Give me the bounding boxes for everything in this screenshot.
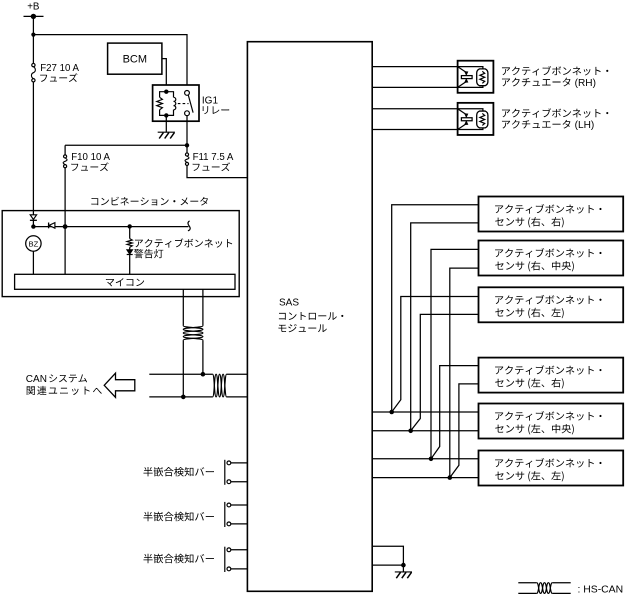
wire SAS sensor bus C (to sensor6 top) xyxy=(372,458,478,460)
node CAN lower junction xyxy=(181,395,186,400)
actuator LH shorting bar xyxy=(461,118,472,121)
wire SAS ground pin 1 xyxy=(372,546,403,565)
label sensor 3 line1 xyxy=(495,295,601,304)
label microcomputer (JP) xyxy=(106,278,144,286)
label CAN system line2 xyxy=(27,386,102,395)
label F11 fuse (JP) xyxy=(193,162,230,171)
active bonnet sensor box 3 (右、左) xyxy=(479,287,624,322)
relay coil inductor xyxy=(174,97,176,110)
svg-text:BZ: BZ xyxy=(28,239,38,248)
connector hook end of meter bus xyxy=(188,221,190,231)
wire F11 to SAS module xyxy=(187,166,247,178)
wire SAS sensor bus A (to sensor5 top) xyxy=(372,411,478,413)
node junction relay output xyxy=(185,143,189,147)
svg-text:(LH): (LH) xyxy=(575,120,595,131)
actuator RH squib feed bottom xyxy=(458,86,483,88)
label sensor 5 line1 xyxy=(495,411,601,420)
wire relay switch to junction xyxy=(186,115,188,145)
wire sensor3 bottom feed xyxy=(411,314,479,430)
wire SAS to actuator RH pin1 xyxy=(372,66,457,68)
actuator LH squib resistor xyxy=(480,113,485,125)
legend twisted pair line lower xyxy=(518,592,536,594)
wire CAN-H to bus lower xyxy=(182,340,184,397)
wire F10 drop xyxy=(64,145,66,155)
arrow to CAN system units xyxy=(104,373,135,397)
label sensor 1 line2 xyxy=(495,217,563,228)
fuse F27 10A xyxy=(32,63,35,66)
svg-text:SAS: SAS xyxy=(279,298,299,309)
actuator RH shorting bar xyxy=(461,76,472,79)
label module (JP) xyxy=(278,324,326,332)
detection terminal 1 xyxy=(227,461,231,465)
legend twisted pair line upper xyxy=(518,582,536,584)
wire SAS ground pin 2 xyxy=(372,564,403,566)
svg-text:(RH): (RH) xyxy=(575,78,596,89)
svg-text:: HS-CAN: : HS-CAN xyxy=(578,585,624,596)
relay coil resistor zigzag xyxy=(157,97,163,110)
microcomputer box xyxy=(15,274,235,289)
label sensor 6 line1 xyxy=(495,458,601,467)
actuator RH box xyxy=(458,61,494,93)
actuator LH squib capsule xyxy=(477,111,488,128)
label active bonnet warning light (JP) line1 xyxy=(135,238,232,247)
wire sensor4 top feed xyxy=(431,366,479,459)
label half-fit detection bar (JP) xyxy=(143,512,213,522)
actuator RH squib resistor xyxy=(480,71,485,83)
wire +B branch to IG1 relay switch xyxy=(33,35,187,91)
twisted pair vertical xyxy=(183,326,203,340)
wire sensor2 top feed xyxy=(431,249,479,458)
wire BCM to relay coil xyxy=(162,59,166,92)
wire +B vertical to fuse F27 xyxy=(32,16,34,63)
node CAN upper junction xyxy=(201,372,206,377)
wire sensor1 top feed xyxy=(392,205,479,412)
actuator LH squib feed bottom xyxy=(458,128,483,130)
actuator RH shorting-bar pin bottom xyxy=(458,82,467,88)
wire to ground xyxy=(402,565,404,572)
wire sensor1 bottom feed xyxy=(411,223,479,431)
wire F10 to meter xyxy=(64,168,66,227)
label sensor 1 line1 xyxy=(495,204,601,213)
label sensor 3 line2 xyxy=(495,308,563,319)
half-fit detection bar xyxy=(224,502,226,527)
label actuator LH line1 xyxy=(502,108,608,117)
wire diode to buzzer node xyxy=(32,220,34,226)
node buzzer junction xyxy=(31,224,35,228)
label sensor 2 line2 xyxy=(495,261,574,272)
label actuator RH line1 xyxy=(502,66,608,75)
relay IG1 box xyxy=(153,85,199,121)
actuator LH squib feed top xyxy=(458,109,483,111)
node ground junction xyxy=(401,563,406,568)
svg-text:F27 10 A: F27 10 A xyxy=(40,63,79,74)
relay mechanical link (dashed) xyxy=(178,103,189,105)
BCM box xyxy=(108,43,162,74)
SAS control module box xyxy=(247,42,372,592)
relay switch contact bottom xyxy=(185,111,190,116)
wire SAS to actuator RH pin2 xyxy=(372,86,457,88)
wire F10 node to microcomputer xyxy=(64,227,66,275)
active bonnet sensor box 1 (右、右) xyxy=(479,197,624,232)
combination meter box xyxy=(2,211,239,297)
actuator RH squib feed top xyxy=(458,67,483,69)
label sensor 5 line2 xyxy=(495,424,574,435)
node junction +B branch xyxy=(31,33,35,37)
label sensor 4 line2 xyxy=(495,378,563,389)
ground below SAS xyxy=(395,571,412,573)
buzzer BZ xyxy=(26,236,41,251)
wire CAN bus upper left xyxy=(149,373,212,375)
label F10 fuse (JP) xyxy=(71,162,108,171)
active bonnet sensor box 4 (左、右) xyxy=(479,358,624,393)
svg-text:F10 10 A: F10 10 A xyxy=(71,152,110,163)
wire SAS to actuator LH pin1 xyxy=(372,108,457,110)
wire junction to fuse F11 xyxy=(186,145,188,153)
half-fit detection bar xyxy=(224,460,226,485)
detection terminal 2 xyxy=(227,522,231,526)
svg-text:BCM: BCM xyxy=(123,53,147,65)
label sensor 2 line1 xyxy=(495,248,601,257)
relay coil terminal top xyxy=(164,90,168,94)
actuator LH box xyxy=(458,103,494,135)
diode D2 in meter xyxy=(48,223,50,229)
node junction F10/meter bus xyxy=(63,224,68,229)
wire CAN bus lower to SAS xyxy=(227,396,248,398)
detection terminal 2 xyxy=(227,567,231,571)
wire CAN-H from microcomputer xyxy=(182,289,184,326)
relay switch contact top xyxy=(185,91,190,96)
svg-text:+B: +B xyxy=(27,2,40,13)
warning lamp LED xyxy=(129,247,131,250)
active bonnet sensor box 5 (左、中央) xyxy=(479,404,624,439)
wire relay coil to ground xyxy=(165,115,167,132)
wire meter bus xyxy=(33,226,188,228)
wire SAS to actuator LH pin2 xyxy=(372,129,457,131)
svg-text:F11 7.5 A: F11 7.5 A xyxy=(193,152,234,163)
label control (JP) xyxy=(279,312,343,320)
wire sensor4 bottom feed xyxy=(450,384,479,478)
active bonnet sensor box 6 (左、左) xyxy=(479,451,624,486)
label half-fit detection bar (JP) xyxy=(143,554,213,564)
wire CAN bus lower left xyxy=(149,396,212,398)
node bus C junction xyxy=(429,457,434,462)
label actuator RH line2 xyxy=(502,78,571,87)
actuator RH squib capsule xyxy=(477,69,488,86)
detection terminal 1 xyxy=(227,548,231,552)
warning lamp resistor xyxy=(129,227,131,239)
label sensor 6 line2 xyxy=(495,471,563,482)
fuse F10 10A xyxy=(64,155,67,158)
twisted pair horizontal to SAS xyxy=(213,374,227,397)
wire CAN-L to bus upper xyxy=(202,340,204,374)
svg-text:CAN: CAN xyxy=(26,374,47,385)
actuator LH shorting-bar pin top xyxy=(458,109,467,115)
node junction warning lamp branch xyxy=(128,224,132,228)
actuator LH shorting-bar pin bottom xyxy=(458,124,467,130)
node bus A junction xyxy=(389,410,394,415)
label half-fit detection bar (JP) xyxy=(143,467,213,477)
wire sensor3 top feed xyxy=(392,297,479,413)
label actuator LH line2 xyxy=(502,120,571,129)
wire CAN bus upper to SAS xyxy=(227,373,248,375)
node bus D junction xyxy=(448,475,453,480)
wire F27 to combination meter diode xyxy=(32,82,34,215)
node bus B junction xyxy=(408,429,413,434)
diode D1 in meter xyxy=(30,215,36,220)
fuse F11 7.5A xyxy=(185,153,188,156)
wire SAS sensor bus B (to sensor5 bottom) xyxy=(372,430,478,432)
wire sensor2 bottom feed xyxy=(450,268,479,478)
wire SAS sensor bus D (to sensor6 bottom) xyxy=(372,477,478,479)
label sensor 4 line1 xyxy=(495,365,601,374)
relay coil outline xyxy=(160,92,174,116)
actuator RH shorting-bar pin top xyxy=(458,67,467,73)
relay switch blade xyxy=(188,95,193,113)
half-fit detection bar xyxy=(224,547,226,572)
relay coil terminal bottom xyxy=(164,113,168,117)
active bonnet sensor box 2 (右、中央) xyxy=(479,241,624,276)
label F27 fuse (JP) xyxy=(40,73,77,82)
label relay (JP) xyxy=(203,106,230,114)
legend braid xyxy=(537,583,553,594)
wire junction to F10 branch xyxy=(65,144,187,146)
wire CAN-L from microcomputer xyxy=(202,289,204,326)
label warning light line2 xyxy=(134,249,163,258)
detection terminal 2 xyxy=(227,480,231,484)
wire BZ to microcomputer xyxy=(32,251,34,274)
svg-text:IG1: IG1 xyxy=(202,95,219,106)
ground below relay xyxy=(158,131,175,133)
detection terminal 1 xyxy=(227,503,231,507)
label combination meter (JP) xyxy=(91,197,208,206)
